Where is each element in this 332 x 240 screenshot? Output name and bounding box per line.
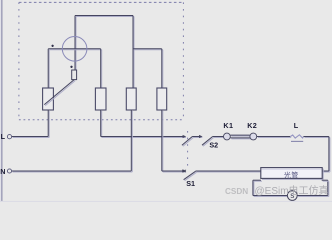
- wire: S2 to lamp holder K1: [213, 137, 225, 138]
- meter terminal 4: [157, 88, 167, 110]
- S1 contact arrow: [182, 169, 186, 172]
- wire: K2 to ballast: [257, 137, 291, 138]
- svg-text:光管: 光管: [284, 170, 299, 179]
- window left border: [0, 0, 3, 202]
- terminal N: [7, 169, 11, 173]
- wire: starter bottom left: [253, 196, 289, 197]
- svg-text:L: L: [1, 132, 6, 141]
- wire: terminal 2 down to switch feed: [101, 110, 102, 138]
- S2 second contact arrow: [199, 135, 203, 138]
- svg-text:K1: K1: [223, 121, 233, 130]
- switch S1 blade: [184, 171, 197, 180]
- wire: ballast to right corner: [304, 137, 330, 138]
- meter terminal 3: [126, 88, 136, 110]
- fuse FU of voltage coil: [72, 70, 77, 80]
- kWh meter dashed enclosure bottom edge: [19, 119, 184, 121]
- svg-text:N: N: [0, 167, 5, 176]
- fuse link between K1 and K2 (lower bar): [230, 138, 251, 139]
- label 光管 (tube): [262, 168, 322, 170]
- switch S2 blade 2: [202, 136, 214, 146]
- terminal L: [7, 135, 11, 139]
- wire: N terminal to terminal 3: [12, 171, 133, 172]
- meter disc circle: [62, 37, 87, 62]
- svg-text:L: L: [294, 121, 299, 130]
- wire: starter left drop: [253, 180, 254, 196]
- wire: feed to switch S2: [101, 137, 186, 138]
- kWh meter dashed enclosure left edge: [18, 2, 20, 119]
- polarity asterisk (voltage coil): [70, 66, 72, 68]
- wire: terminal 3 down to neutral: [131, 110, 132, 172]
- fuse link between K1 and K2 (upper bar): [230, 135, 251, 136]
- wire: terminal 1 down to L feed: [48, 110, 49, 138]
- svg-text:K2: K2: [247, 121, 257, 130]
- dashed guide below meter box: [187, 131, 189, 170]
- wire: S1 to tube left end: [196, 171, 262, 172]
- S1 contact cross mark: [184, 170, 186, 172]
- wire: into tube right end: [322, 171, 330, 172]
- lamp holder contact K2: [250, 133, 257, 140]
- wire: horizontal to terminal 4 branch: [133, 49, 163, 50]
- S2 contact arrow: [183, 135, 187, 138]
- switch S2 blade 1: [182, 136, 194, 146]
- ballast L zigzag winding: [290, 135, 303, 138]
- window bottom border: [0, 201, 332, 202]
- wire: right side drop: [329, 137, 330, 173]
- wire: vertical to terminal 1 top: [48, 49, 49, 89]
- kWh meter dashed enclosure right edge: [182, 2, 184, 119]
- wire: current-coil horizontal through disc: [48, 49, 101, 50]
- wire: vertical to terminal 2 top: [101, 49, 102, 89]
- fluorescent tube body: [261, 168, 323, 180]
- kWh meter dashed enclosure top edge: [19, 1, 184, 3]
- wire: vertical to terminal 3 top: [133, 16, 134, 90]
- polarity asterisk (current coil): [51, 45, 53, 47]
- svg-text:S1: S1: [186, 179, 195, 188]
- wire: top horizontal inside meter: [75, 16, 134, 17]
- wire: starter tap left horizontal: [253, 180, 262, 181]
- meter terminal 1: [43, 88, 54, 110]
- meter terminal 2: [95, 88, 106, 110]
- wire: L terminal to terminal 1: [12, 137, 50, 138]
- wire: voltage-coil vertical through meter disc: [75, 16, 76, 72]
- wire: vertical to terminal 4 top: [162, 49, 163, 89]
- wire: starter right rise: [328, 180, 329, 196]
- wire: terminal 4 down to S1: [162, 110, 163, 172]
- wire: starter tap right horizontal: [322, 180, 329, 181]
- wire: diagonal from fuse to terminal 1: [44, 80, 75, 106]
- wire: S2 middle segment: [193, 137, 203, 138]
- wire: to switch S1: [162, 171, 186, 172]
- lamp holder contact K1: [224, 133, 231, 140]
- starter S: [287, 191, 297, 201]
- ballast L core bar: [291, 140, 303, 142]
- svg-text:S2: S2: [209, 141, 218, 150]
- wire: starter bottom right: [297, 196, 329, 197]
